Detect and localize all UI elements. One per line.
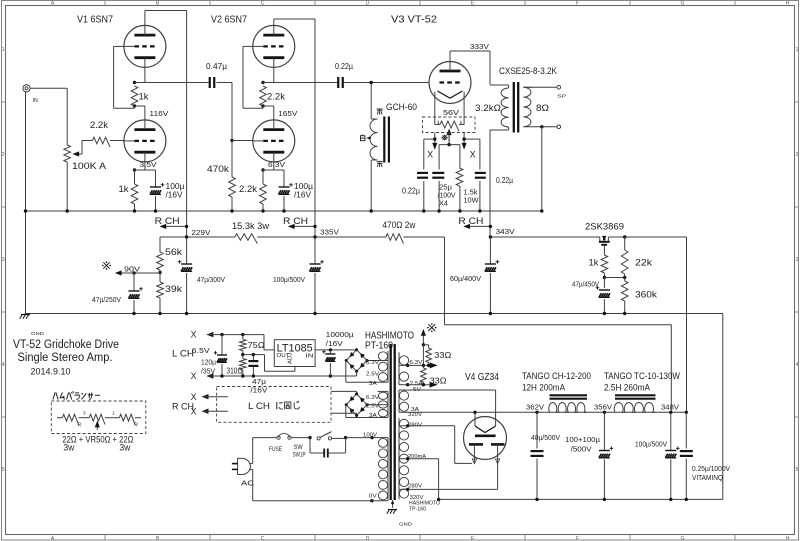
svg-text:1: 1 — [112, 411, 115, 416]
svg-text:G: G — [681, 1, 685, 7]
svg-text:116V: 116V — [149, 109, 169, 118]
svg-text:2: 2 — [2, 152, 5, 158]
svg-text:8Ω: 8Ω — [536, 103, 549, 114]
svg-text:R CH: R CH — [283, 216, 308, 227]
svg-text:D: D — [366, 536, 370, 541]
svg-text:F: F — [576, 536, 579, 541]
svg-text:348V: 348V — [661, 402, 680, 411]
svg-text:X: X — [191, 371, 197, 381]
svg-text:GND: GND — [31, 331, 45, 336]
svg-text:40µ/500V: 40µ/500V — [531, 433, 561, 442]
svg-text:R: R — [134, 422, 138, 428]
svg-text:47µ/250V: 47µ/250V — [92, 295, 122, 304]
svg-text:V1 6SN7: V1 6SN7 — [77, 14, 113, 26]
svg-text:33Ω: 33Ω — [430, 377, 447, 386]
svg-text:12H 200mA: 12H 200mA — [522, 383, 566, 394]
svg-text:100µ/500V: 100µ/500V — [635, 440, 668, 449]
svg-text:5: 5 — [2, 467, 5, 473]
svg-text:X4: X4 — [439, 199, 448, 208]
svg-text:V4 GZ34: V4 GZ34 — [465, 372, 499, 383]
svg-text:D: D — [366, 1, 370, 7]
svg-text:0.22µ: 0.22µ — [496, 176, 513, 185]
svg-text:G: G — [681, 536, 685, 541]
svg-text:X: X — [191, 407, 197, 417]
svg-text:0.25µ/1000V: 0.25µ/1000V — [692, 464, 731, 473]
svg-text:165V: 165V — [278, 109, 298, 118]
svg-text:22k: 22k — [635, 258, 652, 269]
svg-text:310Ω: 310Ω — [226, 367, 242, 376]
svg-text:IN: IN — [33, 98, 38, 104]
svg-text:56V: 56V — [443, 108, 459, 117]
svg-text:TANGO CH-12-200: TANGO CH-12-200 — [522, 371, 591, 382]
svg-text:100+100µ: 100+100µ — [565, 435, 601, 444]
svg-text:/16V: /16V — [294, 191, 312, 200]
svg-text:3w: 3w — [63, 443, 74, 453]
svg-text:33Ω: 33Ω — [434, 351, 451, 360]
svg-text:C: C — [261, 1, 265, 7]
svg-text:SW: SW — [294, 445, 303, 451]
svg-text:39k: 39k — [165, 284, 182, 295]
svg-text:75Ω: 75Ω — [248, 341, 265, 350]
svg-text:Single Stereo Amp.: Single Stereo Amp. — [18, 352, 113, 364]
svg-text:X: X — [191, 392, 197, 402]
svg-text:3A: 3A — [369, 413, 378, 419]
svg-text:R CH: R CH — [155, 216, 180, 227]
svg-text:2014.9.10: 2014.9.10 — [31, 367, 71, 378]
svg-text:VT-52 Gridchoke Drive: VT-52 Gridchoke Drive — [13, 339, 119, 351]
svg-text:356V: 356V — [594, 402, 613, 411]
svg-text:15.3k 3w: 15.3k 3w — [232, 221, 269, 232]
svg-text:3: 3 — [796, 257, 799, 263]
svg-text:SP: SP — [557, 94, 566, 99]
svg-text:470Ω 2w: 470Ω 2w — [382, 220, 415, 231]
svg-text:100K A: 100K A — [72, 161, 107, 172]
svg-text:6.3V: 6.3V — [366, 360, 380, 366]
svg-text:/16V: /16V — [326, 339, 344, 348]
svg-text:GND: GND — [399, 522, 413, 527]
svg-text:1: 1 — [796, 47, 799, 53]
svg-text:V2 6SN7: V2 6SN7 — [211, 14, 247, 26]
svg-text:6.5V: 6.5V — [192, 346, 211, 355]
svg-text:L CH: L CH — [172, 349, 194, 359]
svg-text:360k: 360k — [635, 290, 657, 301]
svg-text:2.5A: 2.5A — [410, 381, 424, 387]
svg-text:0V: 0V — [369, 493, 378, 499]
svg-text:3w: 3w — [119, 443, 130, 453]
svg-text:362V: 362V — [526, 402, 545, 411]
svg-text:0.22µ: 0.22µ — [335, 62, 353, 71]
svg-text:V3 VT-52: V3 VT-52 — [391, 14, 437, 26]
svg-text:0.22µ: 0.22µ — [402, 187, 420, 196]
svg-text:CXSE25-8-3.2K: CXSE25-8-3.2K — [499, 66, 558, 77]
svg-text:0.47µ: 0.47µ — [206, 62, 228, 71]
svg-text:56k: 56k — [165, 247, 182, 258]
svg-text:C: C — [261, 536, 265, 541]
svg-text:X: X — [470, 150, 476, 160]
svg-text:2.2k: 2.2k — [90, 120, 108, 131]
svg-text:10000µ: 10000µ — [326, 330, 355, 339]
svg-text:3.5V: 3.5V — [140, 160, 158, 169]
svg-text:1: 1 — [2, 47, 5, 53]
svg-text:343V: 343V — [496, 227, 516, 236]
svg-text:2.5V: 2.5V — [366, 372, 380, 378]
svg-text:VITAMINQ: VITAMINQ — [692, 473, 723, 482]
svg-text:3: 3 — [2, 257, 5, 263]
svg-text:1k: 1k — [589, 258, 599, 269]
svg-text:X: X — [191, 330, 197, 340]
svg-text:120µ: 120µ — [201, 358, 217, 367]
svg-text:2.5H 260mA: 2.5H 260mA — [604, 383, 651, 394]
svg-text:100µ/500V: 100µ/500V — [273, 275, 306, 284]
svg-text:TANGO TC-10-130W: TANGO TC-10-130W — [604, 371, 680, 382]
svg-text:2.2k: 2.2k — [267, 92, 285, 103]
svg-text:4: 4 — [796, 362, 799, 368]
svg-text:320V: 320V — [408, 412, 423, 418]
svg-text:H: H — [786, 1, 790, 7]
svg-text:1k: 1k — [139, 92, 149, 103]
svg-text:3.2kΩ: 3.2kΩ — [475, 103, 501, 114]
svg-text:3: 3 — [83, 411, 86, 416]
svg-text:PT-160: PT-160 — [365, 341, 393, 352]
svg-text:90V: 90V — [124, 265, 141, 274]
svg-text:335V: 335V — [320, 228, 340, 237]
svg-text:IN: IN — [306, 354, 314, 360]
svg-text:R: R — [78, 423, 82, 429]
svg-text:60µ/400V: 60µ/400V — [450, 274, 482, 283]
svg-text:2: 2 — [796, 152, 799, 158]
svg-text:47µ/300V: 47µ/300V — [197, 275, 226, 284]
svg-text:ADJ: ADJ — [288, 353, 294, 364]
svg-text:L CH: L CH — [248, 401, 270, 411]
svg-text:/500V: /500V — [571, 445, 593, 454]
svg-text:470k: 470k — [207, 164, 229, 175]
svg-text:47µ/450V: 47µ/450V — [572, 282, 599, 289]
svg-text:2.5V: 2.5V — [366, 403, 380, 409]
svg-text:TP-160: TP-160 — [409, 507, 426, 513]
svg-text:4: 4 — [2, 362, 5, 368]
svg-text:333V: 333V — [470, 42, 490, 51]
svg-text:FUSE: FUSE — [269, 446, 282, 453]
svg-text:229V: 229V — [191, 228, 211, 237]
svg-text:GCH-60: GCH-60 — [386, 102, 417, 113]
svg-text:X: X — [427, 150, 433, 160]
svg-text:2SK3869: 2SK3869 — [585, 222, 624, 233]
svg-text:/16V: /16V — [166, 191, 184, 200]
svg-text:H: H — [786, 536, 790, 541]
svg-text:1k: 1k — [118, 184, 128, 195]
svg-text:3A: 3A — [369, 381, 378, 387]
svg-text:SW1P: SW1P — [293, 453, 306, 459]
svg-text:6.3V: 6.3V — [268, 160, 286, 169]
svg-text:5: 5 — [796, 467, 799, 473]
svg-text:R CH: R CH — [458, 216, 483, 227]
svg-text:F: F — [576, 1, 579, 7]
svg-text:10W: 10W — [464, 196, 479, 205]
svg-text:280V: 280V — [408, 484, 423, 490]
svg-text:2.2k: 2.2k — [239, 184, 257, 195]
svg-text:6.3V: 6.3V — [366, 395, 380, 401]
